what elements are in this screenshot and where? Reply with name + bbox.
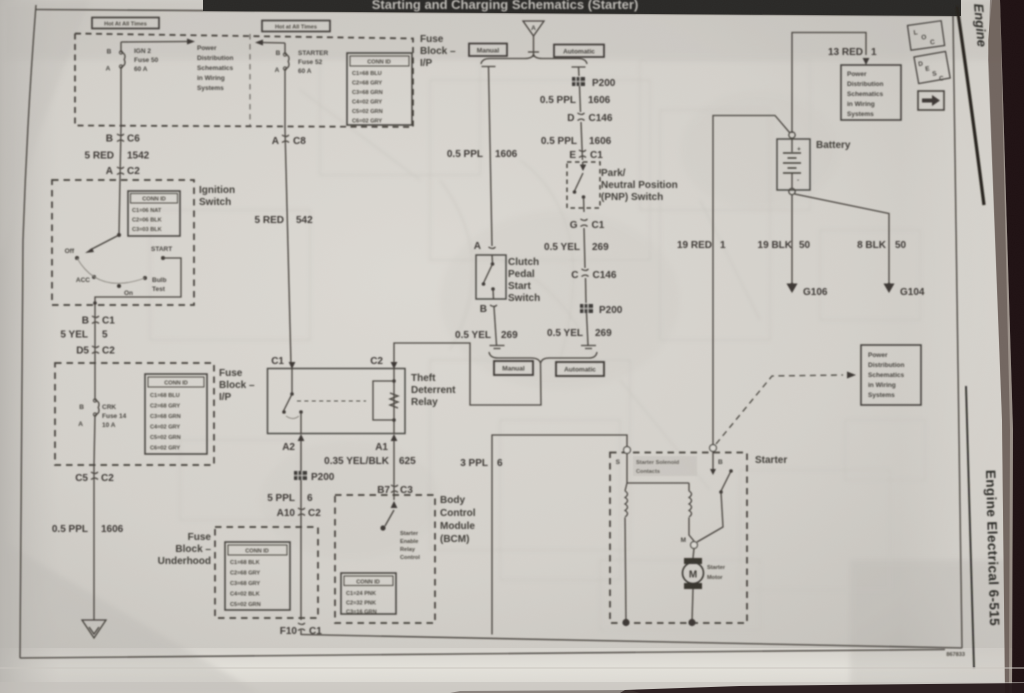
terminal M (691, 542, 698, 549)
connector A C2 (106, 166, 140, 177)
P200 pass-through (left) (294, 471, 335, 483)
relay coil (373, 369, 398, 434)
starter motor (683, 549, 726, 623)
vignette (0, 0, 1024, 60)
manual branch end bar (490, 346, 505, 349)
fuse IGN 2 (106, 42, 159, 127)
label 0.35 YEL/BLK 625 (393, 441, 395, 496)
battery (777, 132, 851, 195)
arrow from starter fuse to note (262, 42, 285, 45)
manual branch wire (482, 67, 496, 247)
terminal A1 (391, 434, 398, 441)
Engine Electrical 6-515 tab (bottom right) (966, 386, 1002, 668)
actuation dashed line (297, 400, 366, 402)
ignition switch dashed box (52, 180, 194, 305)
arrow box (918, 91, 944, 110)
connector B C1 (82, 306, 115, 363)
case grounds (622, 619, 629, 626)
connector B7 C3 (377, 485, 413, 496)
connector C5 C2 (75, 465, 114, 620)
terminal S (624, 447, 631, 454)
relay box (268, 369, 406, 434)
connector A10 C2 (277, 508, 322, 519)
fuse block I/P dashed box (75, 34, 413, 128)
DESC box (914, 51, 950, 83)
tag Manual (469, 44, 507, 57)
relay contact (282, 369, 303, 434)
CONN ID table (BCM) (341, 573, 396, 616)
tag: Hot at All Times (right) (262, 21, 330, 32)
terminal A2 (298, 434, 305, 441)
BCM internal switch (380, 495, 420, 561)
fuse CRK (78, 363, 126, 465)
power distribution box (mid right) (861, 345, 921, 405)
CONN ID table (fuse block I/P lower) (145, 374, 207, 454)
starter dashed box (610, 453, 747, 624)
ignition switch rotary contacts (65, 180, 181, 306)
wire 5 RED 542 (272, 129, 306, 365)
wire battery + to 19 RED wire (713, 116, 790, 446)
split brace (481, 55, 587, 65)
automatic branch end bar (581, 346, 596, 349)
wire / connector B C6 (106, 127, 140, 180)
ground (left, open triangle) (82, 620, 106, 638)
tag Automatic (lower) (556, 362, 604, 376)
clutch pedal start switch (476, 255, 506, 299)
tag Manual (lower) (494, 361, 533, 375)
ground G104 (884, 283, 925, 298)
dashed reference line to power distribution (716, 375, 843, 444)
starter solenoid contacts label (633, 456, 697, 476)
solenoid contact from B (697, 452, 733, 543)
P200 pass-through (mid) (580, 304, 623, 316)
P200 pass-through (top) (572, 77, 616, 89)
BCM dashed box (335, 495, 435, 623)
arrow to power distribution (from IGN2 fuse) (121, 41, 188, 44)
connector D C146 (567, 113, 613, 160)
connector C C146 (571, 269, 617, 303)
connector E C1 (569, 150, 603, 161)
merge wire to relay C2 (394, 343, 541, 405)
wire to 3 PPL 6 (301, 435, 627, 635)
connector F10 C1 (280, 623, 322, 637)
wire A2 down (300, 441, 302, 620)
tag: Hot At All Times (left) (92, 18, 159, 29)
ghost bleed-through layer (150, 55, 925, 630)
CONN ID table (underhood) (225, 542, 290, 610)
ground G106 (787, 283, 828, 298)
automatic branch wire (572, 67, 586, 76)
merge brace (489, 352, 597, 363)
CONN ID table (ignition switch) (128, 191, 180, 236)
connector triangle A (523, 21, 544, 57)
power distribution box (top right) (841, 65, 901, 120)
dark photo edges (988, 0, 1013, 693)
connector G C1 (570, 219, 605, 268)
wire battery - to G106 (791, 195, 793, 285)
Engine tab (top right) (957, 3, 990, 205)
wire from battery + to top and 13 RED 1 (792, 33, 866, 134)
LOC box (907, 21, 944, 50)
terminal B (710, 445, 717, 452)
PNP switch dashed box (567, 162, 600, 212)
wire battery - to G104 (795, 194, 889, 285)
tag Automatic (554, 45, 604, 58)
connector D5 C2 (76, 346, 115, 357)
title banner (203, 0, 961, 16)
solenoid windings (625, 454, 694, 623)
page frame (20, 5, 36, 658)
fuse STARTER (275, 43, 329, 129)
CONN ID table (fuse block I/P) (347, 53, 412, 125)
